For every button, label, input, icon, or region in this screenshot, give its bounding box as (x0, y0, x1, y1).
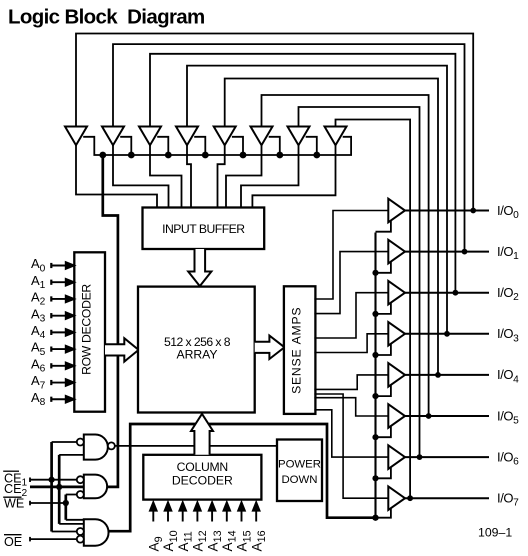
junction dot enable bus tap 5 (240, 152, 247, 159)
wire CE1 input (30, 479, 77, 481)
wire I/O3 line (405, 333, 489, 335)
junction dot output enable tap 6 (372, 475, 378, 481)
wire I/O3 feedback staple (I/O pad to write driver 4) (187, 66, 447, 334)
write control gate G2 (84, 475, 107, 499)
output buffer 7 (triangle) (388, 486, 405, 510)
inverted input bubble G3 OE (77, 536, 84, 543)
wire output-enable bus vertical (374, 233, 376, 518)
wire enable stub output buffer 6 (376, 466, 391, 478)
svg-text:DECODER: DECODER (172, 474, 233, 488)
wire CE2 rail vertical (58, 455, 61, 524)
junction dot I/O7 feedback tap (407, 495, 413, 501)
wire enable stub output buffer 0 (376, 220, 391, 232)
wire I/O2 feedback staple (I/O pad to write driver 3) (150, 54, 455, 293)
output buffer 0 (triangle) (388, 199, 405, 223)
svg-text:512 x 256 x 8: 512 x 256 x 8 (164, 335, 231, 349)
junction dot I/O0 feedback tap (470, 208, 476, 214)
address input arrow A11 (182, 509, 184, 521)
svg-text:I/O2: I/O2 (497, 285, 519, 303)
wire sense amp output 2 to output buffer 2 (314, 293, 388, 338)
output buffer 1 (triangle) (388, 240, 405, 264)
wire write-buffer enable net (G2 output riser) (103, 155, 118, 487)
junction dot I/O4 feedback tap (435, 372, 441, 378)
wire CE2 to G1 input (59, 454, 84, 456)
junction dot enable bus tap 2 (128, 152, 135, 159)
junction dot enable bus tap 4 (202, 152, 209, 159)
junction dot output enable tap 3 (372, 352, 378, 358)
address input arrow A7 (51, 382, 67, 384)
svg-text:A8: A8 (31, 390, 46, 408)
junction dot I/O2 feedback tap (453, 290, 459, 296)
wire I/O7 line (405, 497, 489, 499)
output buffer 3 (triangle) (388, 322, 405, 346)
wire I/O6 line (405, 456, 489, 458)
wire output-enable net (G3 to output buffers) (109, 424, 376, 531)
wire write driver 7 output to input buffer (241, 144, 299, 207)
svg-text:A1: A1 (31, 273, 46, 291)
junction dot I/O1 feedback tap (462, 249, 468, 255)
wire sense amp output 3 to output buffer 3 (314, 334, 388, 353)
wire write driver 2 output to input buffer (113, 144, 169, 207)
wire sense amp output 7 to output buffer 7 (314, 394, 388, 498)
address input arrow A8 (51, 398, 67, 400)
address input arrow A10 (167, 509, 169, 521)
wire write driver 6 output to input buffer (226, 144, 262, 207)
junction dot output enable tap 2 (372, 311, 378, 317)
inverted input bubble G1 CE1 (77, 439, 84, 446)
svg-text:Logic Block Diagram: Logic Block Diagram (8, 6, 205, 29)
svg-text:SENSE AMPS: SENSE AMPS (290, 307, 304, 394)
svg-text:I/O5: I/O5 (497, 408, 519, 426)
svg-text:A2: A2 (31, 290, 46, 308)
inverted input bubble G2 WE (77, 491, 84, 498)
wire WE to G3 input (66, 519, 84, 521)
address input arrow A16 (255, 509, 257, 521)
wire CE1 to G3 inverted input (52, 531, 77, 533)
svg-text:ROW DECODER: ROW DECODER (80, 284, 94, 375)
wire write driver 1 output to input buffer (76, 144, 157, 207)
svg-text:I/O1: I/O1 (497, 244, 519, 262)
svg-text:A4: A4 (31, 323, 46, 341)
write driver buffer 1 (triangle) (65, 127, 87, 146)
svg-text:I/O0: I/O0 (497, 203, 519, 221)
wire enable stub write driver 5 (232, 137, 243, 155)
write driver buffer 7 (triangle) (288, 127, 310, 146)
output buffer 4 (triangle) (388, 363, 405, 387)
svg-text:I/O6: I/O6 (497, 449, 519, 467)
wire sense amp output 6 to output buffer 6 (314, 410, 388, 457)
svg-text:109–1: 109–1 (478, 526, 512, 540)
bus arrow row decoder to array (105, 338, 139, 361)
junction dot output enable tap 4 (372, 393, 378, 399)
address input arrow A1 (51, 281, 67, 283)
wire enable stub write driver 4 (194, 137, 205, 155)
wire enable stub output buffer 1 (376, 261, 391, 273)
wire chip-select to power down (115, 445, 277, 447)
input buffer block (143, 208, 265, 250)
address input arrow A5 (51, 348, 67, 350)
wire enable stub output buffer 3 (376, 343, 391, 355)
wire WE to G2 inverted input (66, 494, 77, 496)
output buffer 5 (triangle) (388, 404, 405, 428)
svg-text:I/O7: I/O7 (497, 491, 519, 509)
output buffer 6 (triangle) (388, 445, 405, 469)
wire write-driver enable bus (83, 137, 351, 155)
wire enable stub write driver 2 (120, 137, 131, 155)
svg-text:POWER: POWER (278, 459, 321, 471)
wire write driver 4 output to input buffer (187, 144, 191, 207)
wire WE rail vertical (64, 495, 67, 520)
write driver buffer 3 (triangle) (139, 127, 161, 146)
junction dot enable bus tap 7 (313, 152, 320, 159)
svg-text:A0: A0 (31, 256, 46, 274)
column decoder block (143, 455, 261, 500)
wire I/O0 line (405, 210, 489, 212)
write driver buffer 6 (triangle) (251, 127, 273, 146)
sense amps block (284, 286, 316, 414)
junction dot I/O3 feedback tap (444, 331, 450, 337)
wire I/O5 feedback staple (I/O pad to write driver 6) (262, 95, 429, 416)
wire enable stub output buffer 4 (376, 384, 391, 396)
svg-text:DOWN: DOWN (281, 474, 317, 486)
junction dot output enable tap 1 (372, 270, 378, 276)
write driver buffer 4 (triangle) (176, 127, 198, 146)
wire enable stub write driver 3 (157, 137, 168, 155)
address input arrow A13 (211, 509, 213, 521)
svg-text:INPUT BUFFER: INPUT BUFFER (162, 222, 245, 236)
wire I/O6 feedback staple (I/O pad to write driver 7) (299, 107, 420, 457)
junction dot I/O6 feedback tap (417, 454, 423, 460)
svg-text:A5: A5 (31, 340, 46, 358)
address input arrow A14 (226, 509, 228, 521)
overline WE (3, 496, 21, 498)
output buffer 2 (triangle) (388, 281, 405, 305)
wire write driver 8 output to input buffer (252, 144, 335, 207)
address input arrow A6 (51, 365, 67, 367)
wire write driver 5 output to input buffer (218, 144, 225, 207)
wire I/O1 feedback staple (I/O pad to write driver 2) (113, 44, 465, 252)
memory array block (138, 287, 255, 413)
row decoder block (74, 252, 105, 411)
junction dot WE rail (63, 500, 69, 506)
output control gate G3 (84, 519, 109, 546)
address input arrow A15 (241, 509, 243, 521)
wire enable stub output buffer 2 (376, 302, 391, 314)
wire I/O4 feedback staple (I/O pad to write driver 5) (225, 79, 438, 375)
bus arrow input buffer to array (188, 249, 211, 286)
address input arrow A9 (152, 509, 154, 521)
tick CE1 wire start (29, 478, 31, 483)
write driver buffer 2 (triangle) (102, 127, 124, 146)
wire enable stub output buffer 7 (376, 507, 391, 517)
junction dot output enable tap 5 (372, 434, 378, 440)
junction dot enable bus tap 6 (276, 152, 283, 159)
junction dot output enable bus source (372, 515, 378, 521)
svg-text:WE: WE (4, 496, 24, 510)
power-down control gate G1 (84, 435, 108, 460)
svg-text:COLUMN: COLUMN (177, 460, 228, 474)
address input arrow A12 (196, 509, 198, 521)
wire I/O7 feedback staple (I/O pad to write driver 8) (336, 120, 411, 499)
tick WE wire start (29, 501, 31, 506)
overline CE1 (3, 470, 19, 472)
address input arrow A2 (51, 298, 67, 300)
wire sense amp output 5 to output buffer 5 (314, 398, 388, 416)
wire WE input (30, 502, 66, 504)
svg-text:I/O3: I/O3 (497, 326, 519, 344)
svg-text:A7: A7 (31, 373, 46, 391)
wire I/O5 line (405, 415, 489, 417)
write driver buffer 8 (triangle) (325, 127, 347, 146)
junction dot CE2 rail (56, 484, 62, 490)
wire OE input (30, 538, 77, 540)
bus arrow array to sense amps (255, 336, 285, 359)
svg-text:A6: A6 (31, 356, 46, 374)
wire I/O2 line (405, 292, 489, 294)
address input arrow A3 (51, 315, 67, 317)
svg-text:ARRAY: ARRAY (176, 348, 217, 362)
junction dot output enable tap 7 (372, 515, 378, 521)
junction dot enable bus to write-enable gate drop (99, 152, 106, 159)
wire CE2 input (30, 486, 84, 489)
wire I/O0 feedback staple (I/O pad to write driver 1) (76, 34, 473, 211)
write driver buffer 5 (triangle) (214, 127, 236, 146)
wire sense amp output 4 to output buffer 4 (314, 375, 388, 390)
svg-text:OE: OE (4, 535, 22, 549)
tick OE wire start (29, 537, 31, 542)
overline OE (4, 534, 22, 536)
wire CE1 to G1 inverted input (52, 441, 77, 443)
wire enable stub output buffer 5 (376, 425, 391, 437)
wire I/O4 line (405, 374, 489, 376)
wire I/O1 line (405, 251, 489, 253)
address input arrow A4 (51, 331, 67, 333)
wire enable stub write driver 6 (269, 137, 280, 155)
address input arrow A0 (51, 265, 67, 267)
wire sense amp output 1 to output buffer 1 (314, 252, 388, 314)
wire write driver 3 output to input buffer (150, 144, 182, 207)
svg-text:A3: A3 (31, 306, 46, 324)
wire sense amp output 0 to output buffer 0 (314, 211, 388, 300)
wire CE2 to G3 input (59, 523, 84, 525)
inverted input bubble G3 CE1 (77, 528, 84, 535)
bus arrow column decoder to array (191, 414, 213, 455)
junction dot I/O5 feedback tap (426, 413, 432, 419)
power down block (277, 440, 322, 502)
inverted input bubble G2 CE1 (77, 476, 84, 483)
junction dot CE1 rail (49, 477, 55, 483)
wire CE1 rail vertical (50, 442, 53, 532)
junction dot enable bus tap 3 (165, 152, 172, 159)
wire enable stub write driver 7 (306, 137, 317, 155)
svg-text:I/O4: I/O4 (497, 367, 519, 385)
